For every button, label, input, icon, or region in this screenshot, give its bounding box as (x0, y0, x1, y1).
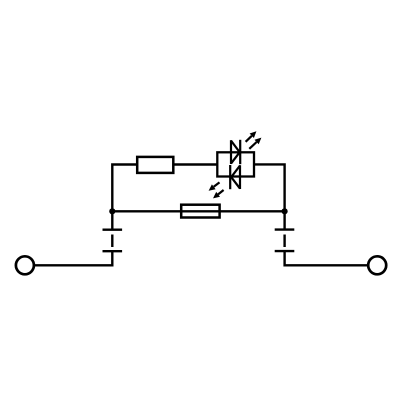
wire (LED box right to node B) (254, 164, 285, 211)
resistor R1 (137, 157, 173, 173)
LED D2 (bottom diode, anti-parallel, pointing left) (230, 165, 240, 189)
terminal X1 (left circle) (16, 256, 34, 274)
node B (junction dot right) (282, 208, 288, 214)
LED emission arrow (top outer) (246, 131, 257, 142)
wire (upper branch: node A up and right to resistor) (112, 165, 137, 212)
fuse F1 (181, 205, 219, 218)
wire (middle rail through fuse, node A to node B) (112, 210, 284, 212)
disconnect point right (isolating contact) (275, 211, 295, 266)
LED emission arrow (bottom inner) (213, 190, 224, 198)
terminal X2 (right circle) (368, 256, 386, 274)
disconnect point left (isolating contact) (103, 211, 123, 266)
wire (left terminal to left disconnect) (34, 264, 112, 266)
wire (resistor to LED box) (173, 163, 217, 165)
LED emission arrow (bottom outer) (209, 182, 220, 190)
LED indicator block U1 (box) (217, 152, 254, 176)
LED D1 (top diode, anode left, pointing right) (231, 140, 240, 164)
wire (right disconnect to right terminal) (285, 264, 368, 266)
node A (junction dot left) (109, 208, 115, 214)
LED emission arrow (top inner) (249, 138, 261, 149)
